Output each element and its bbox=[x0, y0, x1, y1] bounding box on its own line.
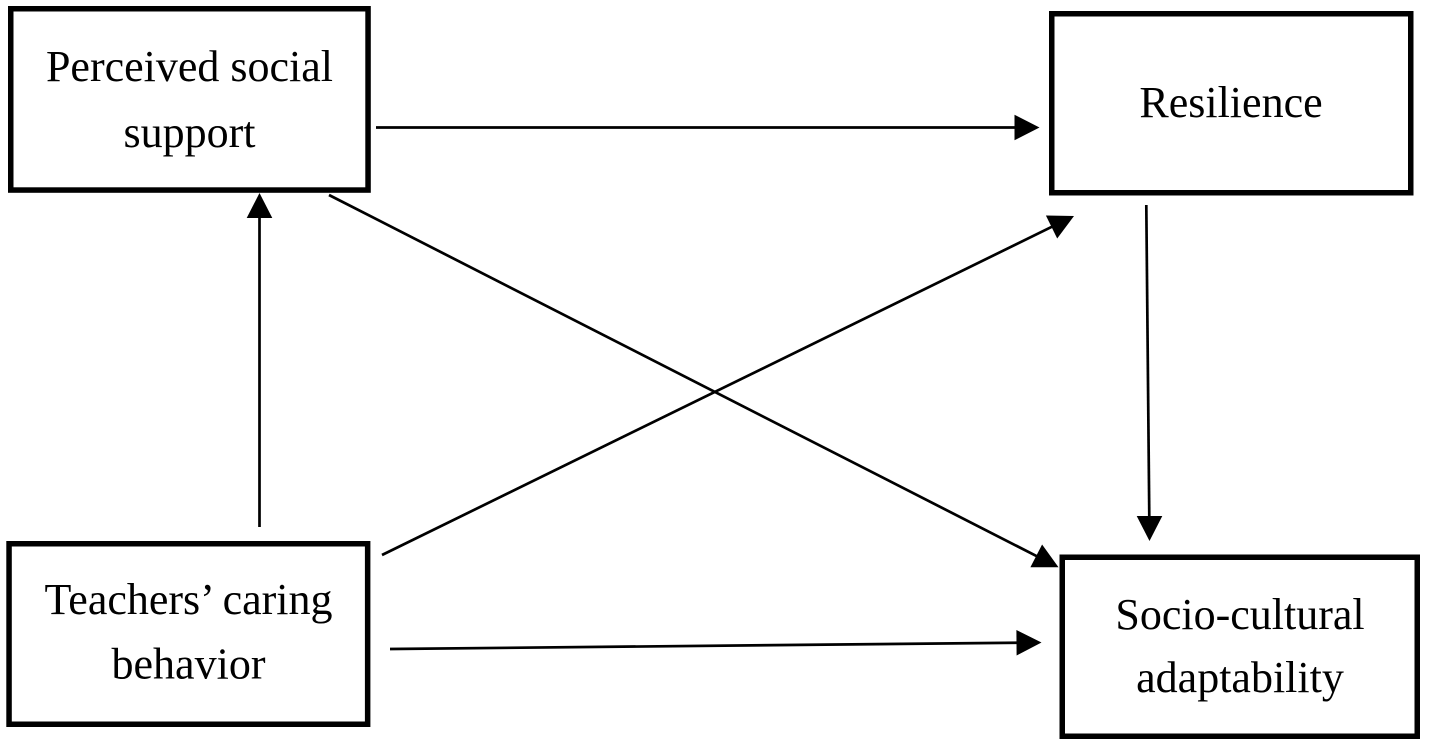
svg-text:Teachers’ caring: Teachers’ caring bbox=[44, 575, 332, 624]
box Teachers' caring behavior bbox=[9, 544, 368, 725]
box Socio-cultural adaptability bbox=[1062, 557, 1417, 736]
arrow Teachers' caring behavior to Perceived social support bbox=[247, 193, 273, 527]
box Perceived social support bbox=[11, 9, 368, 190]
svg-text:adaptability: adaptability bbox=[1136, 653, 1344, 702]
svg-text:support: support bbox=[124, 108, 256, 157]
arrow Resilience to Socio-cultural adaptability bbox=[1137, 205, 1163, 541]
svg-text:Socio-cultural: Socio-cultural bbox=[1115, 590, 1364, 639]
arrow Perceived social support to Socio-cultural adaptability bbox=[329, 195, 1059, 567]
arrow Perceived social support to Resilience bbox=[376, 115, 1040, 141]
arrow Teachers' caring behavior to Socio-cultural adaptability bbox=[390, 630, 1042, 656]
box Resilience bbox=[1052, 14, 1411, 193]
svg-text:behavior: behavior bbox=[112, 640, 266, 689]
arrow Teachers' caring behavior to Resilience bbox=[382, 216, 1074, 556]
svg-text:Resilience: Resilience bbox=[1139, 78, 1322, 127]
svg-text:Perceived social: Perceived social bbox=[46, 42, 333, 91]
